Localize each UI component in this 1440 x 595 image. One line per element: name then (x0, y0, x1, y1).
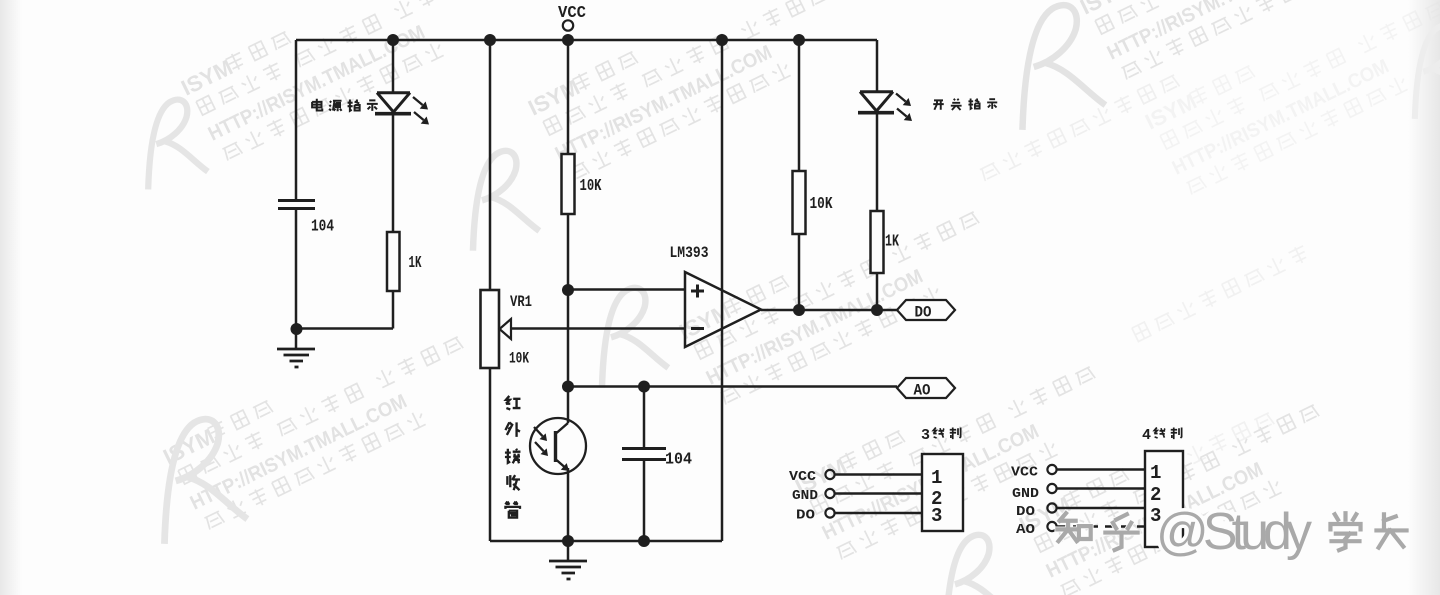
watermark faint run 2 (1131, 244, 1309, 343)
wire bottom rail (490, 540, 722, 543)
node dot rail / R3 branch (793, 34, 805, 46)
wire LED1 to R1 (392, 112, 395, 232)
watermark faint run 3 (1185, 410, 1274, 465)
phototransistor Q1 circle (530, 418, 586, 474)
J2 VCC wire (1057, 468, 1145, 470)
J1 VCC wire (835, 473, 922, 475)
wire top rail (296, 39, 877, 42)
Q1 internals: collector bend, base bar, emitter with arrow (556, 423, 569, 470)
watermark R glyph (586, 284, 670, 387)
connector J1 box (3线制) (922, 454, 963, 531)
left edge shading (0, 0, 22, 595)
J1 DO wire (835, 512, 922, 514)
Q1 incoming light arrows (534, 427, 544, 451)
watermark R glyph (930, 531, 1014, 595)
node dot C2 bottom (638, 535, 650, 547)
wire op-amp + input (568, 288, 685, 291)
svg-text:4: 4 (1142, 427, 1151, 444)
wire mid branch VCC to R2 (567, 40, 570, 154)
svg-text:1K: 1K (409, 254, 423, 273)
wire wiper to op-amp inverting input (511, 327, 685, 330)
resistor R3 10K (793, 171, 806, 234)
J2 VCC terminal circle (1047, 465, 1056, 474)
svg-text:DO: DO (1016, 504, 1035, 520)
label 开关指示 (933, 98, 997, 110)
LED D1 (377, 93, 410, 112)
J2 AO terminal circle (1047, 522, 1056, 531)
J2 DO wire (1057, 507, 1145, 509)
svg-text:10K: 10K (580, 177, 603, 196)
svg-text:VCC: VCC (1011, 465, 1039, 481)
resistor R4 1K (871, 211, 884, 273)
svg-text:3: 3 (921, 427, 930, 444)
svg-text:AO: AO (1016, 522, 1035, 538)
node dot rail / LED1 branch (387, 34, 399, 46)
watermark R glyph (1400, 22, 1440, 119)
J2 AO wire dashed (1057, 525, 1145, 527)
node dot R3 output (793, 304, 805, 316)
svg-text:VCC: VCC (789, 469, 817, 485)
resistor R2 10K (562, 154, 575, 214)
svg-text:104: 104 (665, 451, 692, 470)
node dot rail / VR1 branch (484, 34, 496, 46)
wire C1 to ground node (295, 210, 298, 332)
svg-text:VR1: VR1 (510, 293, 532, 311)
svg-text:104: 104 (311, 218, 334, 237)
watermark R glyph (134, 96, 209, 189)
watermark R glyph (1002, 1, 1107, 130)
watermark R glyph (457, 147, 541, 250)
wire R2 down through junctions to Q1 (567, 214, 570, 423)
svg-text:10K: 10K (810, 195, 834, 214)
svg-text:AO: AO (914, 382, 931, 400)
wire LED2 branch from rail corner (876, 40, 879, 92)
wire right vertical crossing (VCC to bottom rail) (721, 40, 724, 541)
wire LED1 branch (392, 40, 395, 92)
svg-text:GND: GND (792, 488, 818, 504)
wire Q1 emitter to bottom rail (567, 468, 570, 541)
J1 GND wire (835, 492, 922, 494)
VR1 wiper arrow (500, 319, 512, 339)
svg-text:1K: 1K (885, 233, 900, 252)
LED D2 (860, 92, 893, 111)
label 电源指示 (312, 99, 378, 111)
watermark text block G (1015, 376, 1342, 595)
J2 GND wire (1057, 487, 1145, 489)
watermark faint run 1 (978, 72, 1180, 182)
svg-text:@Study: @Study (1156, 503, 1312, 561)
node dot + input (562, 284, 574, 296)
watermark text block F (791, 338, 1118, 564)
svg-text:10K: 10K (509, 350, 529, 368)
J2 DO terminal circle (1047, 503, 1056, 512)
svg-text:GND: GND (1012, 486, 1039, 502)
op-amp U1 LM393 triangle (685, 272, 761, 347)
wire VR1 bottom to rail (489, 368, 492, 541)
ground G1 (295, 332, 298, 349)
label 红外接收管 vertical (505, 396, 521, 518)
svg-text:1: 1 (1150, 462, 1161, 484)
svg-text:1: 1 (931, 467, 942, 489)
wire LED2 to R4 (876, 111, 879, 211)
node dot bottom ground (562, 535, 574, 547)
node dot ground G1 (291, 323, 303, 335)
op-amp + sign (691, 285, 704, 298)
wire left branch (C1 leg top) (295, 40, 298, 199)
capacitor C1 104 (278, 201, 315, 209)
wire ground node to R1 bottom (296, 291, 393, 329)
wire R4 to output line (876, 273, 879, 310)
node dot R4 output (871, 304, 883, 316)
watermark text block C (1076, 0, 1403, 85)
watermark text block C2 (1141, 0, 1440, 200)
J2 GND terminal circle (1047, 484, 1056, 493)
wire op-amp output to DO (761, 309, 897, 312)
node dot C2 top (638, 381, 650, 393)
svg-text:VCC: VCC (558, 4, 586, 23)
svg-text:DO: DO (915, 304, 932, 322)
J1 GND terminal circle (825, 489, 834, 498)
svg-text:3: 3 (931, 505, 942, 527)
ground G2 (567, 541, 570, 561)
watermark text block A (177, 0, 504, 166)
DO tag (897, 300, 955, 320)
svg-text:DO: DO (796, 508, 815, 524)
J1 VCC terminal circle (825, 470, 834, 479)
VCC terminal circle (563, 20, 573, 30)
wire VR1 branch top (489, 40, 492, 290)
J1 DO terminal circle (825, 508, 834, 517)
resistor R1 1K (387, 232, 400, 291)
node dot AO tap (562, 381, 574, 393)
potentiometer VR1 body (481, 290, 500, 368)
watermark text block E (675, 183, 1002, 409)
op-amp - sign (691, 327, 704, 330)
wire R3 branch (798, 40, 801, 171)
capacitor C2 104 (643, 386, 646, 448)
AO tag (897, 378, 955, 398)
svg-text:LM393: LM393 (670, 244, 709, 262)
watermark R glyph (144, 415, 249, 544)
node dot rail / VCC terminal (562, 34, 574, 46)
connector J2 box (4线制) (1145, 451, 1183, 547)
node dot rail / right crossing wire (716, 34, 728, 46)
wire AO line (568, 385, 897, 388)
wire R3 to output line (798, 234, 801, 310)
right edge shading (1408, 0, 1440, 595)
white halo (1057, 513, 1406, 550)
watermark text block D (159, 308, 486, 534)
watermark text block B (524, 0, 851, 186)
